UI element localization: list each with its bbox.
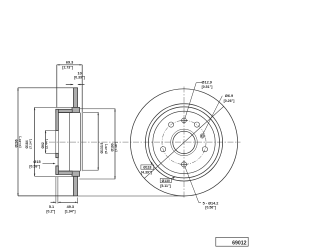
dim Ø296 extension lines [18,87,73,89]
dim Ø296 line [17,88,19,196]
top hole crosshair [183,117,185,125]
centerline horizontal [49,141,241,143]
center bore [173,131,195,153]
left view: drum rim edges [80,113,82,172]
dim 69.3 extension lines [56,65,58,108]
bolt circle (dash-dot) [162,120,206,164]
svg-text:[2.44"]: [2.44"] [45,139,49,149]
leader boxed Ø118 [151,162,153,165]
bore extension lines [46,129,56,131]
svg-text:[0.39"]: [0.39"] [74,75,85,79]
svg-text:[4.39"]: [4.39"] [141,170,152,174]
svg-text:[2.73"]: [2.73"] [62,65,73,69]
left view: drum wall top strip (section) [56,109,72,112]
svg-text:[7.24"]: [7.24"] [28,139,32,149]
left view: friction ring top bar (section) [73,88,77,108]
svg-text:[0.26"]: [0.26"] [224,99,235,103]
dim bore line x=45.6 [45,130,47,153]
left view: locating hole edges [56,157,59,159]
svg-text:Ø15: Ø15 [33,160,40,164]
bottom extension to right view [78,195,184,197]
dim 10 arrows [66,84,73,86]
svg-text:[0.56"]: [0.56"] [205,206,216,210]
svg-text:69.3: 69.3 [66,61,73,65]
svg-text:[7.48"]: [7.48"] [114,142,118,152]
Ø15 leader [43,163,54,165]
left view: friction ring bottom foot [72,171,80,176]
left view: locating hole back wall [57,158,59,166]
svg-text:[0.59"]: [0.59"] [29,165,40,169]
dim ring ID line x=34.6 [34,107,36,176]
right side dim line 1 x=98.2 [97,112,99,170]
svg-text:Ø6.9: Ø6.9 [225,94,233,98]
svg-text:[5.26"]: [5.26"] [104,144,108,154]
svg-text:[0.2"]: [0.2"] [46,209,55,213]
boxed label Ø130 box [160,179,171,183]
set screw hole Ø6.9 [200,134,204,138]
diagonal section line [144,106,223,178]
left view: drum inner corner vertical [68,113,70,172]
bottom hole crosshair [183,161,185,169]
left view: friction ring top foot [72,107,80,112]
left view: flange column upper piece (section) [56,109,59,130]
lug holes 5x [194,122,199,127]
left view: flange column mid piece (section) [56,153,59,157]
svg-text:5.1: 5.1 [49,205,54,209]
leader Ø6.9 [203,96,222,134]
right view ring circles [145,104,222,181]
left view: flange column lower piece (section) [56,166,59,175]
svg-text:[1.94"]: [1.94"] [65,209,76,213]
right side dim line 2 x=114.4 [114,109,116,179]
right view outer circle [130,89,237,196]
leader boxed Ø130 [171,177,174,178]
left view: bore edge lines [56,129,59,131]
left view: bore wall verticals [55,130,57,153]
part number box [216,237,248,246]
svg-text:Ø130: Ø130 [162,179,170,183]
svg-text:[11.65"]: [11.65"] [18,136,22,147]
left view: drum inner surface bottom edge [58,170,72,172]
centerline vertical of right view [183,87,185,199]
svg-text:[0.51"]: [0.51"] [202,85,213,89]
bore chamfer [171,129,198,156]
dim 69.3 line [57,64,82,66]
left view: friction ring bottom bar (section) [73,176,77,196]
svg-text:Ø12.9: Ø12.9 [202,80,212,84]
left view: drum wall bottom strip (section) [56,171,72,174]
bottom dims 5.1 / 49.3 [55,177,57,204]
ring ID extension lines [35,106,72,108]
boxed label Ø118 box [141,165,154,169]
svg-text:69012: 69012 [232,241,247,247]
leader 5-Ø14.2 [185,167,201,203]
svg-text:49.3: 49.3 [67,205,74,209]
leader Ø12.9 [185,83,202,119]
svg-text:Ø118: Ø118 [143,165,151,169]
top hole Ø12.9 [182,118,187,123]
svg-text:[5.11"]: [5.11"] [160,184,171,188]
left view: drum inner surface top edge [58,112,72,114]
